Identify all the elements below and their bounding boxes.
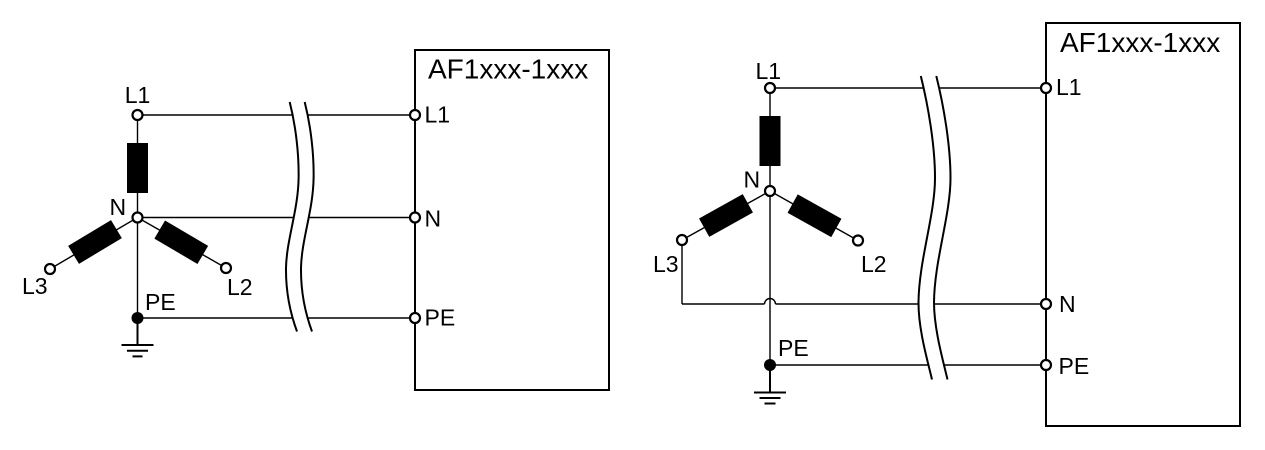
node L3 (source terminal) (677, 235, 687, 245)
terminal PE (device U2) (1041, 360, 1051, 370)
winding L2 (788, 194, 842, 237)
svg-text:N: N (425, 206, 442, 232)
device box U1 AF1xxx-1xxx (415, 50, 609, 390)
svg-text:N: N (1059, 291, 1076, 317)
wire L1 phase leg (vertical through winding) (769, 88, 771, 191)
wire N-to-PE vertical (137, 218, 139, 319)
wire L1 phase leg (vertical through winding) (137, 115, 139, 218)
wire N (star point to device N) (143, 217, 415, 219)
wire star leg to L3 (50, 218, 138, 270)
svg-text:L3: L3 (22, 273, 48, 299)
wire PE (earth point to device PE) (770, 364, 1046, 366)
wire L1 (source L1 to device L1) (143, 114, 415, 116)
winding L3 (68, 220, 122, 264)
winding L2 (154, 221, 208, 264)
svg-text:L1: L1 (756, 58, 782, 84)
svg-text:N: N (110, 194, 127, 220)
wire PE (earth point to device PE) (143, 317, 415, 319)
hop (crossover, no connection) (765, 299, 776, 305)
winding L1 (transformer phase winding) (127, 143, 148, 193)
terminal L1 (device U2) (1041, 83, 1051, 93)
svg-text:AF1xxx-1xxx: AF1xxx-1xxx (428, 54, 588, 85)
terminal N (device U1) (410, 213, 420, 223)
svg-text:L1: L1 (425, 102, 451, 128)
winding L3 (699, 194, 753, 237)
svg-text:L1: L1 (125, 82, 151, 108)
break symbol (cable interruption) (918, 76, 950, 380)
node L2 (source terminal) (853, 236, 863, 246)
node N (star point) (133, 213, 143, 223)
node L3 (source terminal) (45, 264, 55, 274)
wire L3 drop to N line (681, 240, 683, 304)
wire star leg to L2 (138, 218, 227, 269)
svg-text:L2: L2 (227, 274, 253, 300)
terminal PE (device U1) (410, 313, 420, 323)
svg-text:AF1xxx-1xxx: AF1xxx-1xxx (1060, 27, 1220, 58)
ground (earth symbol) (122, 318, 154, 356)
terminal L1 (device U1) (410, 110, 420, 120)
wire star leg to L2 (770, 191, 858, 241)
ground (earth symbol) (754, 365, 786, 404)
junction PE (earthed star point) (764, 359, 776, 371)
device box U2 AF1xxx-1xxx (1046, 23, 1240, 426)
svg-text:L1: L1 (1056, 74, 1082, 100)
junction PE (earthed neutral point) (132, 312, 144, 324)
wire star leg to L3 (682, 191, 770, 240)
svg-text:PE: PE (778, 335, 809, 361)
svg-text:PE: PE (425, 305, 456, 331)
svg-text:L2: L2 (861, 251, 887, 277)
terminal N (device U2) (1041, 299, 1051, 309)
wire star point to earth (769, 191, 771, 365)
node L1 (source terminal) (765, 83, 775, 93)
wire L1 (source L1 to device L1) (776, 87, 1047, 89)
wire N (L3 to device N, with crossover hop) (682, 303, 765, 305)
svg-text:PE: PE (1059, 353, 1090, 379)
node N (star point) (765, 186, 775, 196)
svg-text:L3: L3 (653, 251, 679, 277)
svg-text:N: N (744, 167, 761, 193)
node L1 (source terminal) (133, 110, 143, 120)
svg-text:PE: PE (145, 289, 176, 315)
break symbol (cable interruption) (286, 102, 314, 332)
winding L1 (transformer phase winding) (760, 116, 781, 166)
node L2 (source terminal) (221, 263, 231, 273)
